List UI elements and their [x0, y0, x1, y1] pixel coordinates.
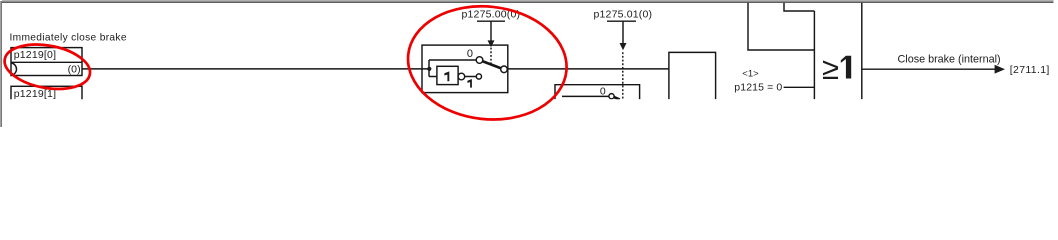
p1275.01 arrow stem: [622, 21, 624, 43]
svg-text:p1219[0]: p1219[0]: [14, 49, 56, 61]
svg-text:p1215 = 0: p1215 = 0: [734, 82, 782, 94]
svg-text:0: 0: [600, 85, 606, 97]
p1275.00 arrowhead: [488, 40, 495, 47]
switch S1 contact 0: [476, 57, 483, 64]
switch S1 contact 1: [476, 74, 481, 79]
switch S2 input-0 wire: [562, 95, 609, 97]
inverter U1 bubble: [458, 73, 465, 80]
svg-text:Immediately close brake: Immediately close brake: [10, 32, 127, 43]
p1275.01 arrowhead: [620, 43, 627, 50]
OR gate U2 left edge: [813, 11, 815, 99]
p1275.00 T-bar: [477, 20, 505, 22]
p1275.00 arrow stem: [490, 21, 492, 40]
p1275.01 control dashed line: [622, 52, 624, 99]
switch S1 input-0 wire: [429, 59, 476, 61]
red annotation ellipse left: [1, 0, 572, 127]
wire switch S1 output: [507, 68, 669, 70]
switch S1 box: [422, 45, 508, 93]
wire p1215 to OR gate: [784, 86, 815, 88]
p1275.00 control dashed line: [490, 48, 492, 64]
OR gate U2 right edge: [861, 3, 863, 99]
wire OR gate output: [862, 68, 995, 70]
switch S1 label 1 (drawn): [467, 79, 472, 88]
switch S1 lever: [483, 61, 501, 68]
binector input box p1219[0]: [11, 48, 82, 76]
switch S2 lever stub: [614, 97, 620, 100]
inverter U1 label 1 (drawn): [444, 71, 449, 81]
p1275.01 T-bar: [607, 20, 636, 22]
frame top bar: [2, 0, 1054, 1]
p1219[0] connector semicircle: [11, 63, 17, 76]
switch S1 branch vertical: [428, 60, 430, 77]
p1219[0] box divider: [11, 61, 82, 63]
OR gate label 1 (drawn): [841, 56, 851, 79]
frame left bar: [0, 1, 1, 127]
switch S2 box (cropped): [555, 85, 640, 100]
svg-text:<1>: <1>: [742, 69, 759, 80]
red annotation ellipse middle: [402, 0, 572, 127]
wire bubble to contact 1: [465, 76, 477, 78]
junction node: [427, 67, 431, 71]
switch S1 pivot: [501, 66, 508, 73]
upper cropped block notch: [784, 3, 814, 11]
svg-text:Close brake (internal): Close brake (internal): [898, 54, 1001, 66]
svg-text:≥: ≥: [822, 51, 839, 86]
upper cropped block left edge: [748, 3, 814, 50]
svg-text:0: 0: [467, 48, 473, 60]
wire from p1219[0] to switch junction: [82, 68, 429, 70]
output arrowhead: [995, 65, 1005, 74]
binector input box p1219[1]: [11, 86, 82, 114]
inverter U1 box: [437, 66, 458, 84]
switch S1 input-1 wire: [429, 76, 437, 78]
middle block (cropped): [669, 52, 716, 99]
svg-text:(0): (0): [68, 64, 81, 76]
svg-text:p1275.01(0): p1275.01(0): [594, 8, 653, 20]
switch S2 contact 0: [609, 94, 614, 99]
svg-text:[2711.1]: [2711.1]: [1010, 64, 1050, 76]
